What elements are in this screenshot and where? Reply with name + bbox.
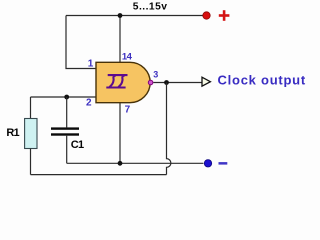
capacitor C1 bbox=[66, 97, 68, 127]
node: junction on top rail bbox=[118, 13, 123, 18]
wire: feedback drop with hop over ground rail bbox=[167, 83, 171, 175]
svg-text:R1: R1 bbox=[6, 127, 19, 139]
inversion bubble on output bbox=[148, 80, 153, 85]
node: junction pin 7 / ground rail bbox=[118, 161, 123, 166]
symbol: red plus bbox=[219, 10, 230, 21]
svg-text:5...15v: 5...15v bbox=[133, 1, 168, 12]
wire: left rail from V+ down to pin 1 bbox=[66, 16, 97, 69]
svg-text:C1: C1 bbox=[71, 139, 84, 151]
wire: ground rail to minus terminal bbox=[67, 162, 204, 164]
wire: pin 2 input rail bbox=[31, 96, 97, 98]
terminal: red positive dot bbox=[203, 12, 210, 19]
svg-text:14: 14 bbox=[122, 51, 133, 62]
svg-text:3: 3 bbox=[153, 69, 158, 79]
svg-text:1: 1 bbox=[88, 58, 94, 69]
resistor R1 bbox=[30, 97, 32, 119]
wire: pin 14 lead bbox=[119, 16, 121, 63]
svg-text:7: 7 bbox=[125, 105, 131, 116]
wire: output pin 3 bbox=[153, 82, 202, 84]
node: junction of C1 with pin-2 rail bbox=[64, 95, 69, 100]
symbol: output arrow triangle bbox=[202, 77, 210, 86]
symbol: blue minus bbox=[219, 162, 228, 165]
wire: pin 7 lead bbox=[119, 103, 121, 164]
wire: top positive rail bbox=[66, 15, 203, 17]
terminal: blue negative dot bbox=[204, 160, 211, 167]
node: output junction bbox=[164, 80, 169, 85]
svg-text:2: 2 bbox=[86, 98, 92, 109]
gate U1 Schmitt-trigger NAND body bbox=[96, 62, 150, 102]
symbol: hysteresis mark inside gate bbox=[106, 75, 127, 87]
wire: bottom feedback rail to R1 bbox=[31, 174, 167, 176]
svg-text:Clock output: Clock output bbox=[218, 72, 306, 87]
